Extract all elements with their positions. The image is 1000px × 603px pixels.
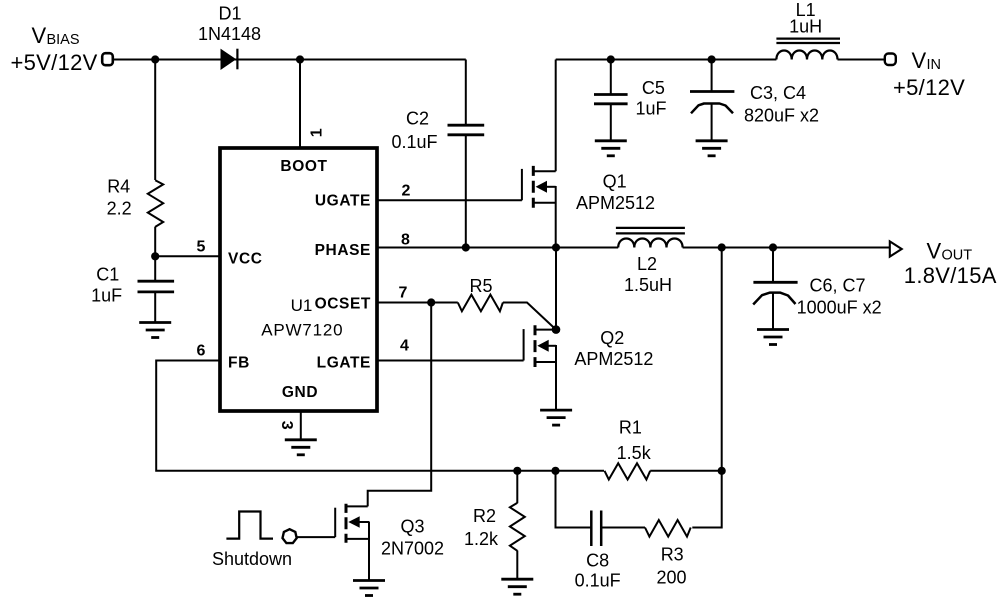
wire: VIN rail from Q1 drain to L1: [556, 59, 777, 61]
svg-text:FB: FB: [228, 354, 250, 371]
svg-text:1N4148: 1N4148: [198, 24, 261, 44]
svg-text:Q1: Q1: [603, 171, 627, 191]
ground (R2): [501, 579, 533, 594]
svg-text:1: 1: [309, 128, 326, 137]
wire: OCSET pin 7 to junction: [377, 302, 431, 304]
wire: L1 to VIN terminal: [838, 59, 885, 61]
diode D1: [221, 49, 238, 70]
svg-text:5: 5: [197, 239, 206, 256]
svg-text:C6, C7: C6, C7: [810, 276, 866, 296]
wire: R1 right lead to node: [650, 470, 722, 472]
resistor R4: [148, 180, 163, 227]
junction R1 / R3 / VOUT divider node: [718, 467, 726, 475]
capacitor C2: [448, 125, 485, 135]
svg-text:2.2: 2.2: [107, 199, 132, 219]
wire: VBIAS junction down to R4 top: [154, 60, 156, 181]
svg-text:1.5k: 1.5k: [617, 443, 652, 463]
svg-text:R2: R2: [473, 506, 496, 526]
wire: R2 bottom lead to ground: [516, 551, 518, 580]
junction VIN rail / C3 C4: [708, 55, 716, 63]
svg-text:1uF: 1uF: [91, 286, 122, 306]
wire: junction to R5 left: [431, 302, 458, 304]
resistor R2: [510, 503, 525, 551]
svg-text:APM2512: APM2512: [574, 349, 653, 369]
wire: C8 branch down from FB node: [556, 471, 592, 528]
inductor L2: [616, 228, 685, 248]
capacitor C5: [594, 95, 628, 104]
svg-text:1000uF x2: 1000uF x2: [797, 298, 882, 318]
wire: PHASE pin 8 line to L2: [377, 247, 618, 249]
wire: R4 bottom to VCC junction: [154, 227, 156, 257]
svg-text:OCSET: OCSET: [315, 295, 371, 312]
wire: C8 to R3: [601, 527, 645, 529]
wire: BOOT rail corner down to C2 top plate: [465, 60, 467, 126]
junction FB / R2: [513, 467, 521, 475]
svg-text:Shutdown: Shutdown: [212, 549, 292, 569]
ground (IC pin 3): [285, 440, 317, 455]
transistor Q1 (APM2512): [522, 166, 556, 208]
junction BOOT node (D1 cathode): [296, 55, 304, 63]
ground (C1): [139, 323, 171, 338]
svg-text:LGATE: LGATE: [317, 354, 371, 371]
IC U1 APW7120 box: [220, 148, 377, 411]
wire: FB pin 6 left then down then long run to feedback node: [156, 361, 555, 471]
svg-text:APW7120: APW7120: [261, 321, 343, 340]
svg-text:7: 7: [399, 285, 408, 302]
svg-text:200: 200: [656, 568, 686, 588]
wire: C6 C7 bottom lead to ground: [772, 293, 774, 330]
wire: VBIAS terminal to C2 top corner (BOOT rail): [113, 59, 466, 61]
svg-text:BOOT: BOOT: [280, 158, 327, 175]
svg-text:GND: GND: [282, 384, 318, 401]
svg-text:C1: C1: [96, 265, 119, 285]
ground (C5): [595, 141, 627, 156]
junction VBIAS/R4 node: [151, 55, 159, 63]
wire: VCC junction down to C1 top plate: [154, 256, 156, 281]
wire: R2 top lead: [516, 471, 518, 503]
arrow VOUT: [890, 241, 902, 256]
svg-text:+5V/12V: +5V/12V: [11, 50, 98, 75]
svg-text:VCC: VCC: [228, 251, 263, 268]
wire: Q3 source/body down to ground: [368, 522, 370, 581]
svg-text:0.1uF: 0.1uF: [391, 132, 437, 152]
svg-text:PHASE: PHASE: [315, 242, 371, 259]
wire: C3 C4 top lead: [711, 60, 713, 92]
svg-text:D1: D1: [218, 4, 241, 24]
wire: C1 bottom plate to ground: [154, 292, 156, 323]
svg-text:1.8V/15A: 1.8V/15A: [904, 263, 997, 288]
capacitor C3 C4 (polarized): [690, 92, 734, 114]
svg-text:0.1uF: 0.1uF: [575, 570, 621, 590]
transistor Q3 (2N7002): [335, 504, 369, 543]
svg-text:R4: R4: [107, 177, 130, 197]
svg-text:C2: C2: [406, 109, 429, 129]
junction PHASE / C2: [462, 243, 470, 251]
svg-text:1.2k: 1.2k: [464, 529, 499, 549]
wire: Q1 source/body down to PHASE: [555, 186, 557, 248]
svg-text:UGATE: UGATE: [315, 193, 371, 210]
svg-text:1uF: 1uF: [635, 98, 666, 118]
wire: OCSET junction down to Q3 drain elbow: [368, 303, 432, 507]
wire: C2 bottom plate down to PHASE line: [465, 135, 467, 248]
svg-text:Q3: Q3: [400, 516, 424, 536]
svg-text:C3, C4: C3, C4: [750, 83, 806, 103]
capacitor C6 C7 (polarized): [753, 282, 797, 304]
junction VCC node (R4/C1/pin5): [151, 252, 159, 260]
wire: Q3 gate lead from shutdown terminal: [297, 536, 336, 538]
junction Q2 drain / R5: [552, 325, 561, 334]
svg-text:APM2512: APM2512: [576, 193, 655, 213]
svg-text:1uH: 1uH: [789, 17, 822, 37]
wire: C3 C4 bottom lead to ground: [711, 104, 713, 141]
junction VOUT / C6 C7: [769, 243, 777, 251]
svg-text:820uF x2: 820uF x2: [744, 106, 819, 126]
wire: UGATE pin 2 to Q1 gate: [377, 199, 522, 201]
svg-text:8: 8: [401, 231, 410, 248]
svg-text:Q2: Q2: [600, 328, 624, 348]
wire: C6 C7 top lead: [772, 248, 774, 283]
wire: VOUT junction down to R1 node: [721, 248, 723, 471]
terminal VIN: [885, 54, 896, 66]
ground (Q2): [540, 410, 572, 425]
wire: VCC junction to pin 5: [155, 255, 220, 257]
svg-text:+5/12V: +5/12V: [893, 75, 965, 100]
svg-text:R3: R3: [661, 545, 684, 565]
svg-text:R5: R5: [469, 276, 492, 296]
wire: GND pin 3 stub: [300, 411, 302, 440]
wire: BOOT pin stub from rail to IC top: [299, 60, 301, 147]
svg-text:4: 4: [400, 338, 409, 355]
ground (C3 C4): [696, 141, 728, 156]
wire: L2 to VOUT arrow: [683, 247, 890, 249]
capacitor C1: [138, 281, 175, 292]
junction OCSET node: [427, 298, 435, 306]
svg-text:C5: C5: [642, 78, 665, 98]
svg-text:1.5uH: 1.5uH: [624, 275, 672, 295]
svg-text:2: 2: [402, 182, 411, 199]
svg-text:L2: L2: [637, 254, 657, 274]
ground (Q3): [353, 581, 385, 596]
wire: C5 top lead: [610, 60, 612, 95]
junction VIN rail / C5: [607, 55, 615, 63]
wire: C5 bottom lead to ground: [610, 104, 612, 141]
transistor Q2 (APM2512): [524, 325, 556, 367]
junction FB / R1 / C8 branch: [551, 467, 559, 475]
junction PHASE / Q1 source / Q2 drain: [552, 243, 560, 251]
junction VOUT / feedback divider: [718, 243, 726, 251]
resistor R1: [605, 463, 651, 479]
inductor L1: [776, 39, 840, 60]
wire: Q2 source/body down to ground: [555, 345, 557, 410]
terminal VBIAS: [102, 53, 113, 65]
wire: Q1 drain from VIN rail: [555, 60, 557, 172]
wire: R5 right horizontal then diagonal to Q2 drain: [503, 303, 556, 330]
wire: LGATE pin 4 to Q2 gate: [377, 360, 524, 362]
svg-text:R1: R1: [619, 418, 642, 438]
shutdown pulse symbol: [226, 512, 273, 539]
svg-text:6: 6: [197, 342, 206, 359]
terminal shutdown (hexagon): [283, 529, 297, 543]
wire: R1 node down and left to R3 right lead: [692, 471, 721, 528]
svg-text:U1: U1: [291, 296, 313, 315]
svg-text:2N7002: 2N7002: [381, 539, 444, 559]
capacitor C8: [591, 511, 601, 547]
resistor R3: [645, 520, 691, 537]
svg-text:C8: C8: [586, 550, 609, 570]
resistor R5: [458, 295, 503, 312]
svg-text:3: 3: [278, 421, 295, 430]
wire: Q2 drain from PHASE node: [555, 248, 557, 330]
wire: R1 left lead: [556, 470, 605, 472]
ground (C6 C7): [757, 330, 789, 345]
